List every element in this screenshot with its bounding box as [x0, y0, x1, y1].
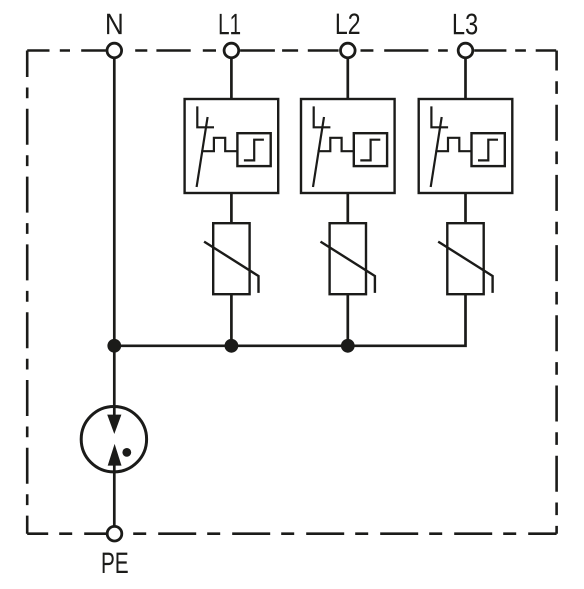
spark gap lower arrow (pointing up): [108, 444, 122, 466]
disconnector L1 outer case: [185, 99, 279, 193]
disconnector L1 contact terminal: [197, 106, 214, 127]
disconnector L2 switch blade: [313, 117, 324, 187]
label L3: [454, 14, 477, 35]
disconnector L3 switch blade: [431, 117, 442, 187]
device enclosure dash-dot boundary, left side: [26, 51, 29, 534]
varistor L2 body: [330, 223, 366, 294]
varistor L3 body: [447, 223, 483, 294]
wire: L3 terminal to disconnector box: [464, 52, 467, 99]
device enclosure dash-dot boundary, right side: [555, 51, 558, 534]
disconnector L2 outer case: [301, 99, 395, 193]
disconnector L1 switch blade: [197, 117, 208, 187]
wire: L1 terminal to disconnector box: [230, 52, 233, 99]
varistor L3 strike-through symbol: [438, 242, 492, 293]
device enclosure dash-dot boundary, top side corner to N: [27, 49, 106, 52]
junction dot on N line at PE bus: [107, 339, 121, 353]
disconnector L3 contact terminal: [431, 106, 448, 127]
disconnector L3 step-function symbol: [478, 140, 498, 161]
wire: L3 disconnector box to varistor: [464, 193, 467, 223]
device enclosure dash-dot boundary, top side L1 to L2: [240, 49, 339, 52]
thermal disconnector box L1: [185, 99, 279, 193]
disconnector L3 thermal trip link: [435, 138, 471, 151]
device enclosure dash-dot boundary, bottom side: [27, 532, 556, 535]
varistor L3: [438, 223, 492, 294]
varistor L1 body: [213, 223, 249, 294]
device enclosure dash-dot boundary, top side N to L1: [135, 49, 223, 52]
label L2: [337, 13, 360, 34]
junction dot on L2 line at PE bus: [341, 339, 355, 353]
disconnector L1 step-function symbol: [244, 140, 264, 161]
spark gap indicator dot: [122, 448, 131, 457]
spark gap (gas discharge tube) circle: [81, 407, 146, 472]
wire: L2 terminal to disconnector box: [346, 52, 349, 99]
wire: L1 disconnector box to varistor: [230, 193, 233, 223]
device enclosure dash-dot boundary, top side L3 to corner: [474, 49, 556, 52]
varistor L1: [204, 223, 258, 294]
wire: spark gap down to PE terminal: [113, 465, 116, 533]
varistor L2 strike-through symbol: [321, 242, 375, 293]
wire: horizontal PE bus with L3 drop: [114, 294, 465, 346]
disconnector L2 contact terminal: [314, 106, 331, 127]
junction dot on L1 line at PE bus: [225, 339, 239, 353]
terminal L3: [458, 43, 473, 58]
wire: L2 disconnector box to varistor: [346, 193, 349, 223]
disconnector L3 outer case: [419, 99, 513, 193]
disconnector L2 thermal trip link: [318, 138, 354, 151]
terminal L1: [224, 43, 239, 58]
spark gap upper arrow (pointing down): [107, 415, 121, 434]
wire: N terminal down to spark gap: [113, 52, 116, 417]
terminal PE: [107, 526, 122, 541]
label L1: [220, 14, 240, 34]
disconnector L2 step-function symbol: [360, 140, 380, 161]
varistor L1 strike-through symbol: [204, 242, 258, 293]
terminal L2: [341, 43, 356, 58]
wire: L1 varistor to PE bus: [230, 294, 233, 346]
label N: [107, 14, 122, 34]
thermal disconnector box L2: [301, 99, 395, 193]
disconnector L1 thermal trip link: [201, 138, 237, 151]
varistor L2: [321, 223, 375, 294]
disconnector L3 trigger unit box: [472, 133, 505, 166]
disconnector L2 trigger unit box: [354, 133, 387, 166]
label PE: [103, 553, 128, 573]
disconnector L1 trigger unit box: [237, 133, 270, 166]
terminal N: [107, 43, 122, 58]
wire: L2 varistor to PE bus: [346, 294, 349, 346]
thermal disconnector box L3: [419, 99, 513, 193]
device enclosure dash-dot boundary, top side L2 to L3: [361, 49, 457, 52]
